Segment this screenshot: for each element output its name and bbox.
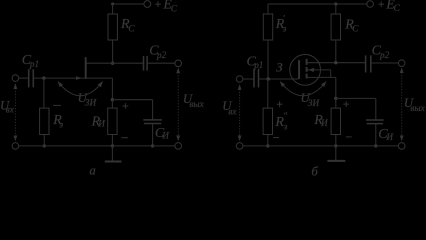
svg-text:C: C bbox=[171, 3, 178, 13]
label Uout a bbox=[183, 92, 205, 109]
transistor VT b channel segments bbox=[306, 59, 308, 79]
node: Rz ground junction a bbox=[43, 144, 46, 147]
terminal input top a bbox=[12, 75, 19, 82]
svg-text:C: C bbox=[352, 24, 359, 34]
wire: Ci bottom lead b bbox=[375, 124, 377, 146]
svg-text:ЗИ: ЗИ bbox=[308, 98, 321, 108]
label Rz2 b bbox=[274, 111, 287, 132]
node: gate junction b bbox=[267, 77, 270, 80]
polarity plus Ri a bbox=[123, 103, 129, 109]
label Cp2 a bbox=[149, 44, 166, 60]
node: source junction b bbox=[334, 97, 337, 100]
capacitor Cp2 b bbox=[366, 55, 371, 72]
voltage arc Uzi b bbox=[280, 81, 326, 95]
label Rz1 b bbox=[275, 14, 287, 34]
wire: drain row a bbox=[86, 62, 143, 64]
polarity minus Ri a bbox=[121, 137, 128, 139]
capacitor Ci b bbox=[366, 120, 384, 124]
svg-text:з: з bbox=[58, 119, 63, 129]
polarity plus Rz2 b bbox=[277, 101, 283, 107]
polarity minus Ri b bbox=[346, 136, 352, 138]
label Uout b bbox=[404, 96, 426, 113]
wire: Cp2 to output terminal b bbox=[371, 62, 399, 64]
node: gate junction a bbox=[42, 76, 45, 79]
svg-text:C: C bbox=[128, 23, 135, 33]
wire: Rc top lead b bbox=[335, 4, 337, 14]
node: Ri ground junction b bbox=[334, 144, 337, 147]
substrate arrow b bbox=[308, 68, 314, 72]
wire: gate wire a bbox=[34, 77, 85, 79]
wire: source drop a bbox=[111, 78, 113, 100]
label Uin b bbox=[222, 99, 237, 116]
terminal output top b bbox=[398, 60, 405, 67]
wire: branch to Ci a bbox=[112, 99, 152, 101]
wire: drain row b bbox=[307, 62, 366, 64]
ground a bbox=[105, 146, 122, 162]
wire: source lead a bbox=[86, 77, 112, 79]
polarity minus Rz a bbox=[53, 104, 61, 106]
svg-text:б: б bbox=[311, 164, 318, 176]
node: drain junction b bbox=[334, 61, 337, 64]
svg-text:′: ′ bbox=[283, 14, 286, 24]
svg-text:з: з bbox=[283, 122, 288, 132]
wire: Rz top lead a bbox=[43, 78, 45, 108]
wire: Rc top lead a bbox=[112, 4, 114, 14]
resistor Ri b bbox=[331, 108, 340, 134]
label +Ec a bbox=[155, 0, 178, 13]
terminal +Ec b bbox=[367, 1, 374, 8]
label Rz a bbox=[52, 113, 63, 130]
voltage arrow Uout a bbox=[176, 67, 180, 141]
voltage arrow Uin b bbox=[238, 84, 242, 141]
svg-text:а: а bbox=[89, 164, 95, 176]
wire: ground rail a bbox=[19, 145, 175, 147]
transistor VT b gate bar bbox=[298, 60, 300, 79]
svg-text:р1: р1 bbox=[253, 60, 263, 70]
node: Ci ground junction b bbox=[374, 144, 377, 147]
wire: ground rail b bbox=[243, 145, 399, 147]
wire: Ci bottom lead a bbox=[152, 124, 154, 146]
resistor Rz1 b bbox=[263, 14, 272, 40]
voltage arc Uzi a bbox=[58, 81, 103, 95]
label Ci a bbox=[155, 126, 170, 141]
resistor Rc b bbox=[331, 14, 340, 40]
label Cp1 a bbox=[22, 53, 39, 69]
label Rc b bbox=[344, 18, 359, 34]
label Uin a bbox=[0, 99, 15, 115]
svg-text:ЗИ: ЗИ bbox=[85, 97, 98, 107]
svg-text:З: З bbox=[276, 60, 283, 74]
wire: branch to Ci b bbox=[336, 97, 376, 99]
svg-text:р1: р1 bbox=[29, 59, 39, 69]
terminal input top b bbox=[236, 76, 243, 83]
label Uzi b bbox=[301, 91, 321, 108]
voltage arrow Uin a bbox=[14, 83, 18, 141]
wire: Ri bottom lead b bbox=[335, 135, 337, 146]
wire: gate wire b bbox=[259, 78, 299, 80]
wire: Rz2 top lead b bbox=[267, 79, 269, 108]
wire: input terminal to Cp1 a bbox=[19, 77, 29, 79]
wire: Ci top lead a bbox=[152, 100, 154, 120]
gate arrow a bbox=[76, 76, 81, 80]
resistor Rz2 b bbox=[263, 108, 272, 134]
node: Rc top junction b bbox=[334, 2, 337, 5]
node: Rz2 ground junction b bbox=[266, 144, 269, 147]
wire: Ri top lead a bbox=[111, 100, 113, 108]
wire: +Ec supply rail b bbox=[268, 3, 367, 5]
label +Ec b bbox=[378, 0, 400, 13]
capacitor Ci a bbox=[143, 120, 162, 124]
wire: source drop b bbox=[335, 77, 337, 98]
label Ri a bbox=[91, 114, 107, 129]
resistor Rc a bbox=[108, 14, 117, 40]
svg-text:вх: вх bbox=[228, 106, 237, 116]
label Rc a bbox=[120, 17, 135, 33]
wire: Ri top lead b bbox=[335, 98, 337, 108]
wire: +Ec supply rail a bbox=[113, 3, 144, 5]
polarity plus Ri b bbox=[343, 101, 349, 107]
terminal output top a bbox=[175, 60, 182, 67]
svg-text:И: И bbox=[97, 119, 106, 129]
terminal +Ec a bbox=[144, 1, 151, 8]
svg-text:C: C bbox=[394, 3, 401, 13]
wire: substrate lead b bbox=[308, 70, 331, 78]
resistor Ri a bbox=[108, 108, 117, 134]
terminal input bottom b bbox=[236, 143, 243, 150]
node: Ci ground junction a bbox=[151, 144, 154, 147]
terminal output bottom b bbox=[398, 143, 405, 150]
wire: Cp2 to output terminal a bbox=[147, 62, 175, 64]
node: Ri ground junction a bbox=[111, 144, 114, 147]
wire: Rz1 bottom lead b bbox=[267, 40, 269, 79]
node: Rc top junction a bbox=[111, 3, 114, 6]
svg-text:вх: вх bbox=[6, 105, 15, 115]
capacitor Cp1 a bbox=[29, 69, 34, 87]
wire: Rz bottom lead a bbox=[43, 135, 45, 146]
transistor VT a (JFET channel bar) bbox=[85, 57, 87, 79]
svg-text:″: ″ bbox=[283, 111, 287, 121]
terminal output bottom a bbox=[175, 143, 182, 150]
svg-text:вых: вых bbox=[410, 103, 425, 113]
terminal input bottom a bbox=[12, 143, 19, 150]
resistor Rz a bbox=[40, 108, 49, 134]
voltage arrow Uout b bbox=[400, 67, 404, 141]
wire: Rz1 top lead b bbox=[267, 4, 269, 14]
capacitor Cp1 b bbox=[254, 69, 259, 88]
capacitor Cp2 a bbox=[144, 56, 148, 71]
ground b bbox=[327, 146, 345, 161]
svg-text:И: И bbox=[161, 130, 170, 140]
label Cp2 b bbox=[372, 44, 390, 60]
wire: Rc bottom lead a bbox=[112, 40, 114, 63]
node: drain junction a bbox=[111, 62, 114, 65]
svg-text:И: И bbox=[385, 132, 394, 142]
label Ri b bbox=[313, 113, 329, 128]
wire: Ri bottom lead a bbox=[111, 135, 113, 146]
svg-text:И: И bbox=[320, 118, 329, 128]
label Uzi a bbox=[78, 91, 98, 108]
svg-text:з: з bbox=[282, 23, 287, 33]
wire: input terminal to Cp1 b bbox=[243, 78, 254, 80]
svg-text:вых: вых bbox=[189, 99, 204, 109]
label Cp1 b bbox=[247, 54, 264, 70]
wire: Rz2 bottom lead b bbox=[267, 135, 269, 146]
polarity minus Rz2 b bbox=[273, 137, 279, 139]
svg-text:р2: р2 bbox=[379, 50, 390, 60]
wire: Rc bottom lead b bbox=[335, 40, 337, 63]
node: source junction a bbox=[111, 98, 114, 101]
transistor VT b (MOSFET circle) bbox=[290, 55, 321, 86]
svg-text:р2: р2 bbox=[156, 50, 167, 60]
wire: Ci top lead b bbox=[375, 98, 377, 120]
label Ci b bbox=[378, 127, 394, 142]
wire: source lead b bbox=[308, 76, 336, 78]
